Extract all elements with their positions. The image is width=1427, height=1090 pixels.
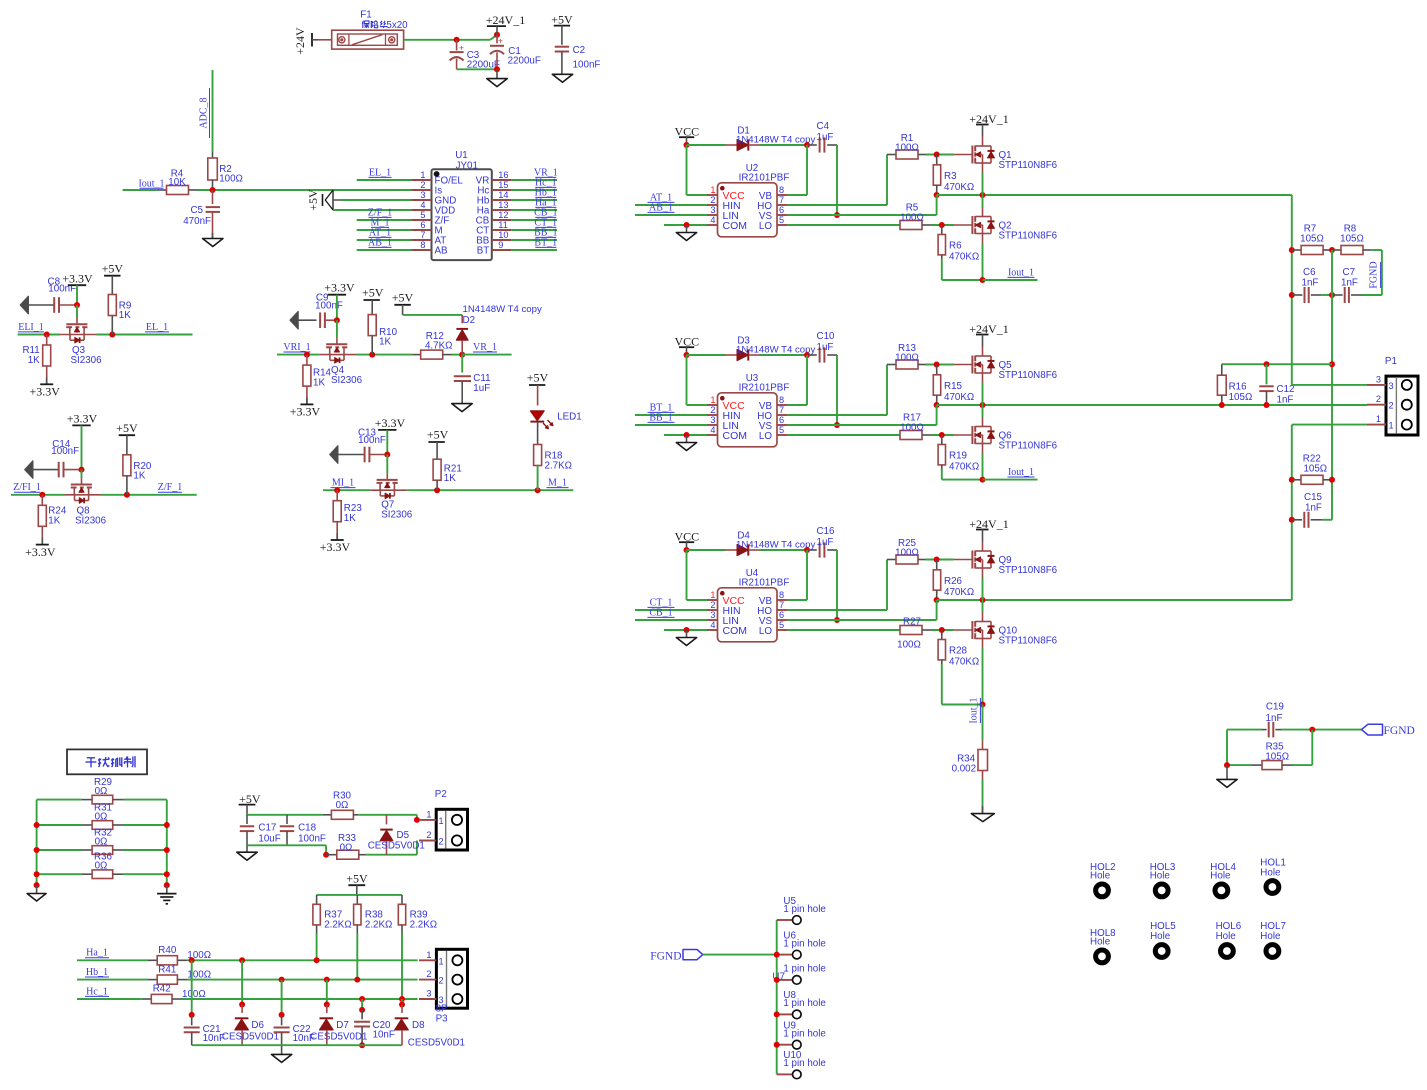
power flag +3.3V under R11 — [29, 378, 60, 399]
svg-text:1: 1 — [439, 956, 444, 966]
svg-text:1: 1 — [426, 809, 431, 819]
resistor R15 — [933, 365, 974, 406]
svg-text:SI2306: SI2306 — [75, 515, 107, 526]
svg-text:8: 8 — [779, 185, 784, 195]
diode D3 1N4148W T4 copy — [726, 336, 815, 361]
wire Iout down to R34 — [982, 705, 984, 741]
resistor R19 — [938, 435, 979, 473]
svg-text:12: 12 — [498, 210, 508, 220]
svg-text:10K: 10K — [168, 177, 186, 188]
U1 pin 2 Is — [412, 180, 443, 197]
wire Q5 source to phase — [982, 383, 984, 406]
svg-text:C19: C19 — [1266, 701, 1284, 712]
ground under C17 — [237, 845, 257, 860]
node left rail junction — [34, 847, 40, 853]
node phase junction at R26 — [934, 597, 940, 603]
wire cap to VS column — [834, 145, 840, 218]
connector P3 — [436, 949, 468, 1024]
wire Q4 to R10/R12 — [356, 354, 412, 356]
svg-text:2: 2 — [710, 405, 715, 415]
wire Q7 gate down — [386, 455, 388, 474]
node hole column junction — [774, 1011, 780, 1017]
svg-text:4: 4 — [710, 215, 715, 225]
capacitor C9 — [315, 292, 343, 328]
wire / net BT_1 — [511, 237, 557, 250]
wire phase output row — [937, 597, 1292, 603]
svg-text:LO: LO — [759, 431, 772, 442]
wire U1 pin3 — [341, 199, 412, 201]
svg-text:Hc_1: Hc_1 — [86, 986, 108, 997]
ground under C1 — [487, 69, 507, 86]
node R21 junction — [434, 487, 440, 493]
svg-text:0Ω: 0Ω — [95, 811, 108, 822]
wire FGND to hole column — [703, 954, 777, 956]
svg-text:5: 5 — [779, 425, 784, 435]
svg-text:P1: P1 — [1385, 356, 1397, 367]
svg-text:2.7KΩ: 2.7KΩ — [545, 461, 572, 472]
transistor Q3 SI2306 — [60, 318, 102, 366]
svg-text:1K: 1K — [28, 355, 40, 366]
1 pin hole U10 — [777, 1050, 827, 1079]
svg-text:CESD5V0D1: CESD5V0D1 — [408, 1038, 465, 1049]
U2 pin 2 HIN — [707, 195, 741, 212]
svg-text:100Ω: 100Ω — [900, 213, 924, 224]
ground under C11 — [452, 404, 472, 412]
wire bottom row C17/C18 — [247, 845, 326, 854]
IC U4 IR2101PBF body — [718, 568, 790, 642]
svg-text:1 pin hole: 1 pin hole — [783, 1029, 826, 1040]
1 pin hole U6 — [777, 930, 827, 958]
wire +5V to D2 — [403, 314, 463, 316]
wire VB to top rail — [787, 145, 807, 195]
node LED column junction — [535, 487, 541, 493]
wire Q10 drain to phase — [982, 600, 984, 612]
wire gate down — [76, 305, 78, 318]
wire +5V rail R37-R39 — [317, 894, 402, 896]
resistor R2 — [208, 152, 243, 190]
capacitor C19 — [1262, 701, 1284, 737]
svg-text:100nF: 100nF — [358, 435, 386, 446]
wire / net Ha_1 — [511, 197, 557, 210]
capacitor C8 — [48, 277, 77, 313]
svg-text:Iout_1: Iout_1 — [1008, 267, 1034, 278]
wire C6 to C7 — [1322, 292, 1335, 298]
wire VS to phase — [787, 195, 937, 215]
wire HO to gate resistor — [787, 560, 887, 611]
capacitor C17 10uF — [240, 815, 281, 846]
power flag +5V above R21 — [427, 427, 449, 459]
svg-text:2: 2 — [710, 600, 715, 610]
svg-text:+5V: +5V — [102, 262, 124, 276]
svg-text:470nF: 470nF — [183, 216, 211, 227]
svg-text:Hole: Hole — [1090, 936, 1111, 947]
wire C19 to FGND — [1281, 727, 1362, 733]
wire to Q5 gate — [926, 362, 954, 368]
svg-text:0Ω: 0Ω — [336, 800, 349, 811]
svg-text:AB_1: AB_1 — [368, 237, 392, 248]
net FGND rotated — [1369, 261, 1381, 288]
1 pin hole U9 — [777, 1021, 827, 1049]
svg-text:Hole: Hole — [1260, 931, 1281, 942]
svg-text:105Ω: 105Ω — [1300, 234, 1324, 245]
resistor R29 0 ohm — [37, 777, 167, 804]
wire Q4 gate down — [336, 320, 338, 338]
wire left rail of 0-ohm bank — [36, 800, 38, 886]
svg-text:COM: COM — [723, 220, 748, 232]
capacitor C21 10nF — [184, 960, 225, 1045]
svg-text:+5V: +5V — [527, 370, 549, 384]
wire / net AB_1 at U1 — [357, 237, 412, 250]
diode D5 CESD5V0D1 — [368, 815, 425, 855]
resistor R17 — [900, 413, 931, 440]
svg-text:STP110N8F6: STP110N8F6 — [999, 440, 1058, 451]
svg-text:4.7KΩ: 4.7KΩ — [425, 341, 452, 352]
hole HOL8 — [1090, 928, 1116, 963]
power flag +5V at C17 — [239, 792, 261, 815]
U3 pin 5 LO — [759, 425, 787, 442]
svg-text:C16: C16 — [817, 526, 836, 537]
power flag +5V above R10 — [362, 286, 384, 315]
svg-text:AB: AB — [435, 246, 449, 257]
resistor R23 — [333, 490, 362, 540]
diode D8 CESD5V0D1 — [395, 999, 465, 1049]
svg-text:R15: R15 — [944, 381, 963, 392]
IC U3 IR2101PBF body — [718, 373, 790, 447]
fuse F1 — [318, 10, 408, 50]
resistor R32 0 ohm — [37, 828, 167, 855]
svg-text:FGND: FGND — [1384, 725, 1415, 737]
svg-text:1K: 1K — [313, 378, 325, 389]
U1 pin 3 GND — [412, 190, 457, 207]
svg-text:2200uF: 2200uF — [508, 56, 541, 67]
svg-text:4: 4 — [710, 620, 715, 630]
connector P2 — [435, 789, 468, 850]
svg-text:R27: R27 — [903, 617, 921, 628]
resistor R11 — [22, 335, 50, 385]
net EL_1 — [145, 322, 169, 333]
capacitor C6 — [1292, 267, 1322, 303]
power flag +5V rotated at U1 — [306, 189, 341, 211]
svg-text:100nF: 100nF — [315, 301, 343, 312]
svg-text:1nF: 1nF — [1305, 502, 1322, 513]
node dots row3 — [359, 996, 405, 1002]
wire LO to gate resistor — [787, 629, 900, 631]
wire gate down — [81, 470, 83, 479]
capacitor C2 — [555, 45, 601, 74]
svg-text:+3.3V: +3.3V — [25, 545, 56, 559]
svg-text:1: 1 — [420, 170, 425, 180]
node bottom rail junction — [980, 277, 986, 283]
svg-text:3: 3 — [1389, 381, 1394, 391]
power flag +24V_1 at Q9 — [969, 517, 1008, 542]
svg-text:100nF: 100nF — [573, 60, 601, 71]
resistor R21 — [433, 459, 462, 490]
transistor Q10 STP110N8F6 — [954, 612, 1058, 648]
svg-text:1: 1 — [1376, 414, 1381, 424]
svg-text:+3.3V: +3.3V — [67, 412, 98, 426]
P1 pin 3 — [1367, 374, 1394, 391]
node R22 junction — [1289, 477, 1295, 483]
power flag +5V top — [551, 13, 573, 45]
capacitor C18 100nF — [280, 815, 326, 846]
svg-text:3: 3 — [426, 989, 431, 999]
node hole column junction — [774, 952, 780, 958]
resistor R12 — [412, 331, 452, 359]
node R16 bottom — [1219, 402, 1225, 408]
net AT_1 wire — [635, 192, 707, 205]
svg-text:Hole: Hole — [1150, 870, 1171, 881]
node right rail junction — [164, 871, 170, 877]
U1 pin 10 BB — [476, 230, 511, 247]
U2 pin 7 HO — [757, 195, 787, 212]
power flag +5V above R20 — [116, 421, 138, 455]
ground at U4 COM — [676, 638, 696, 646]
wire R37 down to Ha row — [316, 933, 318, 960]
svg-text:0Ω: 0Ω — [95, 836, 108, 847]
U1 pin 7 AT — [412, 230, 447, 247]
svg-text:5: 5 — [779, 215, 784, 225]
svg-text:2: 2 — [1376, 394, 1381, 404]
svg-text:R6: R6 — [949, 241, 962, 252]
transistor Q6 STP110N8F6 — [954, 417, 1058, 453]
wire right rail of 0-ohm bank — [166, 800, 168, 886]
net VR_1 wire right — [462, 342, 511, 355]
wire Q6 source down — [982, 453, 984, 480]
capacitor C14 — [51, 439, 81, 477]
wire / net Hb_1 — [511, 187, 557, 200]
svg-text:+24V_1: +24V_1 — [969, 322, 1008, 336]
U3 pin 6 VS — [759, 415, 787, 432]
net MI_1 — [331, 478, 356, 489]
U4 pin 1 VCC — [707, 590, 745, 607]
U3 pin 1 VCC — [707, 395, 745, 412]
svg-text:2: 2 — [710, 195, 715, 205]
node bottom rail junction — [980, 477, 986, 483]
wire R34 to ground — [982, 779, 984, 814]
wire R38 down to Hb row — [356, 933, 358, 980]
transistor Q8 SI2306 — [65, 478, 107, 526]
svg-text:0.002: 0.002 — [952, 764, 977, 775]
resistor R26 — [933, 560, 974, 601]
svg-text:+3.3V: +3.3V — [375, 416, 406, 430]
svg-text:1: 1 — [710, 185, 715, 195]
wire fuse to C3/C1 — [404, 35, 497, 40]
svg-text:100nF: 100nF — [298, 834, 326, 845]
svg-text:0Ω: 0Ω — [340, 843, 353, 854]
svg-text:D8: D8 — [412, 1020, 425, 1031]
svg-text:1K: 1K — [133, 470, 145, 481]
svg-text:VRI_1: VRI_1 — [283, 342, 310, 353]
node Q4 gate junction — [334, 317, 340, 323]
U1 pin 16 VR — [476, 170, 512, 187]
svg-text:C4: C4 — [817, 121, 830, 132]
resistor R27 — [897, 617, 931, 651]
U1 pin 4 VDD — [412, 200, 456, 217]
svg-text:R16: R16 — [1229, 382, 1248, 393]
wire Q7 to M_1 — [407, 489, 574, 491]
svg-text:3: 3 — [1376, 374, 1381, 384]
ground at U3 COM — [676, 443, 696, 451]
svg-text:+5V: +5V — [116, 421, 138, 435]
wire phase output row — [937, 192, 1292, 198]
resistor R8 — [1332, 224, 1371, 255]
wire VB to top rail — [787, 550, 807, 600]
resistor R24 — [38, 495, 67, 545]
node R24 junction — [39, 492, 45, 498]
wire P1 pin3 row — [1292, 384, 1367, 386]
IC U2 IR2101PBF body — [718, 163, 790, 237]
wire Z/F_1 row right — [101, 494, 197, 496]
resistor R6 — [938, 225, 979, 263]
svg-text:10: 10 — [498, 230, 508, 240]
U4 pin 7 HO — [757, 600, 787, 617]
node R9 junction — [109, 332, 115, 338]
svg-text:IR2101PBF: IR2101PBF — [739, 383, 790, 394]
U2 pin 6 VS — [759, 205, 787, 222]
wire VCC rail to diode — [687, 354, 727, 356]
svg-text:R28: R28 — [949, 646, 968, 657]
node VCC junction — [684, 352, 690, 358]
hole HOL4 — [1210, 862, 1236, 897]
wire LO to gate resistor — [787, 224, 900, 226]
svg-text:105Ω: 105Ω — [1229, 392, 1253, 403]
1 pin hole U7 — [772, 964, 826, 985]
wire Q2 source down — [982, 243, 984, 280]
power flag VCC U3 — [674, 335, 699, 356]
svg-text:BT: BT — [477, 246, 490, 257]
svg-text:COM: COM — [723, 430, 748, 442]
svg-text:1 pin hole: 1 pin hole — [783, 964, 826, 975]
ground arrow at C14 — [25, 461, 59, 479]
svg-text:6: 6 — [779, 415, 784, 425]
svg-text:3: 3 — [439, 995, 444, 1005]
svg-text:D5: D5 — [397, 830, 410, 841]
svg-text:M_1: M_1 — [548, 478, 567, 489]
U2 pin 1 VCC — [707, 185, 745, 202]
svg-text:10nF: 10nF — [373, 1029, 395, 1040]
svg-text:470KΩ: 470KΩ — [949, 657, 979, 668]
svg-text:CESD5V0D1: CESD5V0D1 — [368, 841, 425, 852]
ground under R35 — [1217, 765, 1237, 787]
node R20 junction — [124, 492, 130, 498]
connector P1 — [1385, 356, 1418, 435]
svg-text:R26: R26 — [944, 576, 963, 587]
diode D2 1N4148W — [456, 304, 542, 355]
svg-text:3: 3 — [710, 415, 715, 425]
svg-text:100Ω: 100Ω — [897, 640, 921, 651]
svg-text:D7: D7 — [336, 1020, 349, 1031]
svg-text:LO: LO — [759, 626, 772, 637]
wire U1 pin4 — [333, 209, 412, 211]
wire R33 to P2 pin2 — [366, 841, 417, 855]
wire Z/FI_1 row left — [11, 494, 65, 496]
svg-text:1: 1 — [426, 950, 431, 960]
power flag +3.3V under R14 — [290, 398, 321, 419]
U4 pin 8 VB — [759, 590, 787, 607]
svg-text:STP110N8F6: STP110N8F6 — [999, 160, 1058, 171]
U1 pin 15 Hc — [477, 180, 511, 197]
wire cap to VS column — [834, 550, 840, 623]
net Iout_1 rotated label — [969, 697, 981, 723]
node C15 junction — [1289, 517, 1295, 523]
node Q3 gate junction — [74, 302, 80, 308]
power flag +24V — [293, 27, 318, 55]
wire Hc_1 to P3 — [182, 998, 418, 1000]
svg-text:2: 2 — [1389, 401, 1394, 411]
net Iout_1 wire — [983, 467, 1038, 480]
svg-text:Hole: Hole — [1260, 868, 1281, 879]
node left rail junction — [34, 882, 40, 888]
power flag +5V above LED1 — [527, 370, 549, 405]
wire to Q1 gate — [926, 152, 954, 158]
node middle column at rail — [1329, 361, 1335, 367]
svg-text:Hole: Hole — [1150, 931, 1171, 942]
node R11 junction — [44, 332, 50, 338]
svg-text:1: 1 — [710, 395, 715, 405]
wire R16/C12 top rail — [1222, 361, 1332, 367]
capacitor C12 — [1259, 364, 1294, 405]
svg-text:BT_1: BT_1 — [534, 237, 557, 248]
svg-text:1nF: 1nF — [1302, 278, 1319, 289]
svg-text:16: 16 — [498, 170, 508, 180]
net Ha_1 wire — [77, 948, 147, 961]
node Q7 gate junction — [384, 452, 390, 458]
U4 pin 5 LO — [759, 620, 787, 637]
svg-text:470KΩ: 470KΩ — [949, 462, 979, 473]
svg-text:CESD5V0D1: CESD5V0D1 — [222, 1031, 279, 1042]
net AB_1 wire — [635, 202, 707, 215]
node right rail junction — [164, 847, 170, 853]
wire R12 to VR_1 node — [452, 354, 463, 356]
wire VS to phase — [787, 405, 937, 425]
node R7 junction — [1289, 247, 1295, 253]
wire diode to VB node — [760, 352, 811, 358]
svg-text:R40: R40 — [158, 945, 177, 956]
svg-text:3: 3 — [420, 190, 425, 200]
hole HOL5 — [1150, 921, 1176, 957]
resistor R34 0.002 — [952, 740, 988, 779]
svg-text:+: + — [498, 36, 503, 46]
wire VCC rail to diode — [687, 144, 727, 146]
svg-text:1K: 1K — [379, 337, 391, 348]
power flag +24V_1 at Q1 — [969, 112, 1008, 137]
svg-text:P3: P3 — [436, 1014, 449, 1025]
diode D4 1N4148W T4 copy — [726, 531, 815, 556]
svg-text:+3.3V: +3.3V — [324, 281, 355, 295]
svg-text:F1: F1 — [360, 10, 371, 21]
node R14 junction — [304, 352, 310, 358]
svg-text:1K: 1K — [119, 310, 131, 321]
svg-text:6: 6 — [779, 205, 784, 215]
resistor R30 0 ohm — [323, 790, 359, 819]
svg-text:R41: R41 — [158, 964, 176, 975]
capacitor C3 — [450, 40, 500, 71]
resistor R41 100 ohm — [147, 964, 211, 984]
diode D1 1N4148W T4 copy — [726, 126, 815, 151]
svg-text:4: 4 — [710, 425, 715, 435]
node VR_1 junction — [459, 352, 465, 358]
P3 pin 1 — [419, 950, 444, 967]
svg-text:2.2KΩ: 2.2KΩ — [324, 919, 351, 930]
svg-text:470KΩ: 470KΩ — [944, 587, 974, 598]
wire Q9 source to phase — [982, 578, 984, 601]
wire to Q2 gate — [931, 222, 954, 228]
net CT_1 wire — [635, 597, 707, 610]
wire C19 left — [1227, 730, 1262, 766]
net Hc_1 wire — [77, 986, 141, 999]
net M_1 — [547, 478, 569, 489]
node right rail junction — [164, 822, 170, 828]
